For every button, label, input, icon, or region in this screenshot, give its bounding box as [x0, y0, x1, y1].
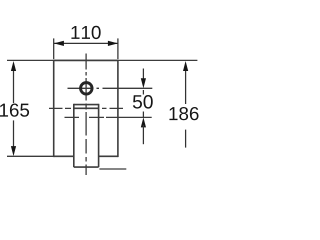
centerline vertical (x=86.1 dash-dot) — [85, 54, 87, 176]
dimension 110 text — [71, 26, 100, 39]
extension line bottom of spigot going right (y=169) — [99, 168, 126, 170]
extension line hole-centre going right (y=88.3) — [103, 87, 153, 89]
centerline horizontal y=117.4 — [65, 116, 152, 118]
hole H1 (fixing hole) — [81, 83, 93, 95]
dimension 50 text — [133, 95, 153, 109]
spigot / outlet column — [74, 104, 99, 167]
centerline horizontal y=108.4 — [49, 107, 123, 109]
dimension 186 text — [169, 107, 198, 120]
dimension 110 line — [54, 38, 118, 59]
extension line bottom-left (y=156.3) — [7, 155, 54, 157]
dimension 50 line — [141, 69, 146, 145]
dimension 165 text — [0, 103, 29, 116]
dimension 186 line — [183, 61, 188, 148]
extension line top (y=60.4 full width) — [7, 59, 197, 61]
centerline horizontal through hole (y=88.3) — [68, 87, 100, 89]
dimension 165 line — [11, 61, 16, 156]
part outline: main plate rectangle — [54, 60, 118, 158]
